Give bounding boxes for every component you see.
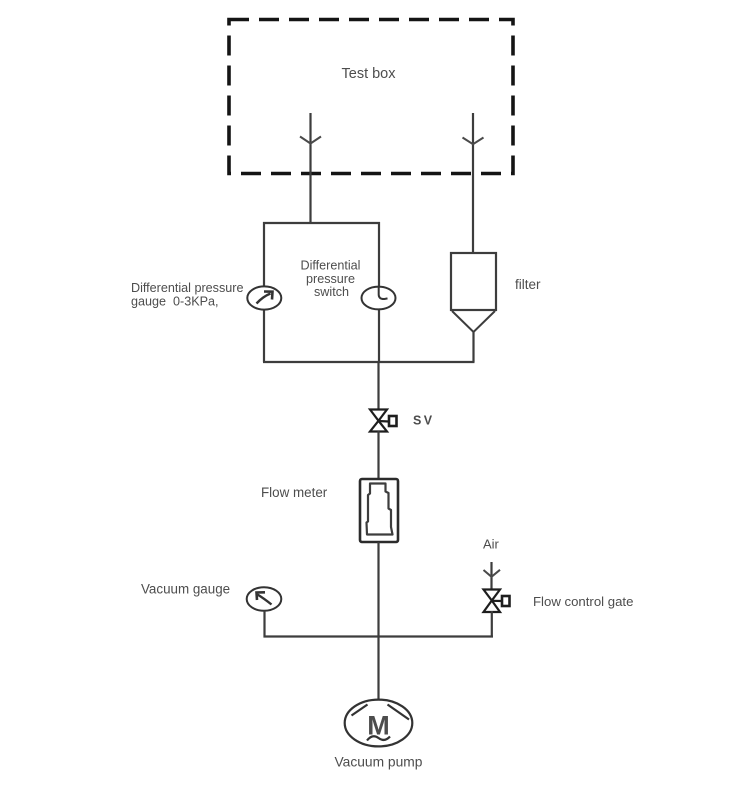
filter body rectangle (451, 253, 496, 310)
gauge box left edge (263, 222, 265, 362)
flow control valve actuator square (502, 596, 510, 606)
gauge box bottom edge to filter drop (263, 361, 475, 363)
svg-text:switch: switch (314, 285, 349, 299)
svg-text:Differential pressure: Differential pressure (131, 281, 243, 295)
gauge box right edge / main line upper (378, 222, 380, 363)
valve SV actuator stem (379, 420, 390, 423)
wire flow meter to pump (377, 542, 379, 701)
flow meter body (360, 479, 398, 542)
wire vacuum gauge stem (263, 611, 265, 638)
wire main down to SV valve (377, 362, 379, 410)
test box dashed enclosure (229, 20, 513, 174)
vacuum pump tilde (367, 736, 390, 740)
svg-text:filter: filter (515, 277, 541, 292)
differential pressure gauge G1 (247, 286, 281, 309)
vacuum pump body (345, 700, 413, 747)
svg-text:Test box: Test box (342, 66, 397, 82)
filter funnel (452, 311, 495, 332)
wire flow control valve down (491, 611, 493, 638)
wire filter outlet (472, 332, 474, 362)
svg-text:Vacuum gauge: Vacuum gauge (141, 582, 230, 597)
svg-text:Vacuum pump: Vacuum pump (335, 755, 423, 770)
svg-text:pressure: pressure (306, 272, 355, 286)
wire air inlet (490, 562, 492, 590)
arrow right inlet (463, 138, 484, 145)
flow meter tube (367, 484, 393, 535)
wire SV valve to flow meter (377, 431, 379, 479)
wire horizontal manifold (264, 635, 494, 637)
svg-text:SV: SV (413, 414, 434, 428)
arrow left inlet (300, 137, 321, 144)
gauge box top edge (263, 222, 380, 224)
differential pressure switch S1 (362, 287, 396, 310)
vacuum pump left vane (352, 705, 368, 716)
vacuum pump right vane (388, 705, 410, 720)
svg-text:Differential: Differential (301, 259, 361, 273)
flow control valve bowtie (484, 590, 501, 601)
svg-text:Flow meter: Flow meter (261, 485, 328, 500)
arrow air inlet (484, 570, 501, 577)
svg-text:Air: Air (483, 537, 500, 552)
wire right inlet into test box (472, 113, 474, 253)
vacuum gauge G2 (247, 587, 282, 611)
svg-text:gauge 0-3KPa,: gauge 0-3KPa, (131, 295, 219, 309)
wire left inlet into test box (309, 113, 311, 223)
svg-text:Flow control gate: Flow control gate (533, 594, 633, 609)
valve SV actuator square (389, 416, 397, 426)
flow control valve actuator stem (492, 600, 502, 602)
valve SV bowtie (370, 410, 387, 421)
